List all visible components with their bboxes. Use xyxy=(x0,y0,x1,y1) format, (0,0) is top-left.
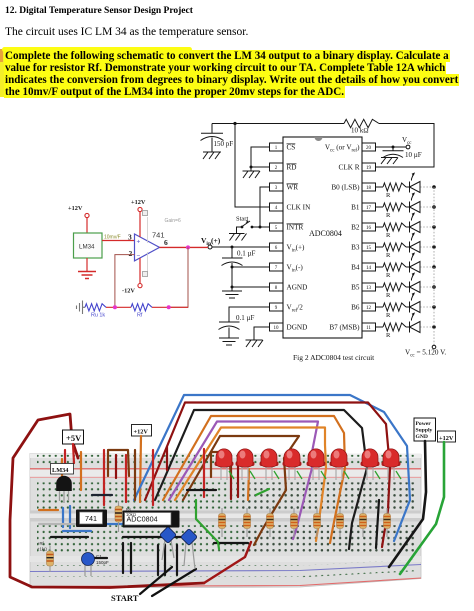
ADC0804 pin 14 B4 xyxy=(362,263,376,271)
svg-text:B7 (MSB): B7 (MSB) xyxy=(329,324,360,332)
resistor R (B5) xyxy=(383,283,406,291)
wire: green jumper xyxy=(196,500,219,549)
capacitor (blue disc) xyxy=(184,542,195,569)
svg-text:+12V: +12V xyxy=(134,429,149,436)
bottom power rail holes xyxy=(37,565,300,568)
op-amp U1 741 xyxy=(135,234,160,261)
wire: dark red jumper xyxy=(115,455,117,478)
svg-text:10 µF: 10 µF xyxy=(405,151,422,159)
node: LED bus junction xyxy=(432,325,436,329)
svg-text:DGND: DGND xyxy=(287,324,308,332)
svg-text:10mv/F: 10mv/F xyxy=(104,235,121,241)
node: LED bus junction xyxy=(432,245,436,249)
wire: black jumper xyxy=(376,500,379,548)
svg-text:10 kΩ: 10 kΩ xyxy=(351,127,369,135)
wire: orange jumper ADC to LED xyxy=(163,416,345,543)
svg-text:20: 20 xyxy=(366,146,372,151)
ADC0804 pin 9 Vref/2 xyxy=(270,303,284,311)
wire: black jumper ADC to LED xyxy=(155,410,367,549)
ADC0804 pin 13 B5 xyxy=(362,283,376,291)
ADC0804 pin 19 CLK R xyxy=(362,163,376,171)
LED D2 xyxy=(410,202,421,213)
ADC0804 pin 3 WR xyxy=(270,183,284,191)
wire: brown staple jumper xyxy=(211,452,231,477)
wire xyxy=(152,306,188,308)
wire: CS/RD to ground xyxy=(251,147,270,171)
wire: brown staple jumper xyxy=(108,450,129,476)
wire: LED supply bus xyxy=(433,187,435,345)
svg-text:R: R xyxy=(386,252,391,259)
LED 8 legs xyxy=(388,466,394,480)
svg-text:12: 12 xyxy=(366,306,372,311)
svg-text:C1: C1 xyxy=(96,554,102,559)
wire: black jumper xyxy=(157,545,159,575)
wire: orange jumper xyxy=(61,459,63,488)
sensor LM34 (TO-92) xyxy=(51,464,74,475)
wire xyxy=(106,306,131,308)
LED D8 xyxy=(410,322,421,333)
svg-text:9: 9 xyxy=(275,306,278,311)
resistor R (B2) xyxy=(383,223,406,231)
wire: black jumper xyxy=(214,542,248,544)
ADC0804 pin 16 B2 xyxy=(362,223,376,231)
LED D5 xyxy=(410,262,421,273)
svg-text:+12V: +12V xyxy=(68,205,83,212)
wire: +12V tap (orange) xyxy=(140,436,141,502)
resistor (LED 3) xyxy=(269,508,271,537)
ground (hatched) for Start switch xyxy=(229,234,247,241)
svg-text:GND: GND xyxy=(416,434,428,440)
capacitor (blue disc) xyxy=(162,540,174,560)
wire: black jumper xyxy=(164,545,166,575)
LED D3 xyxy=(410,222,421,233)
svg-text:5: 5 xyxy=(275,226,278,231)
capacitor 150 pF xyxy=(201,124,223,153)
breadboard base xyxy=(30,454,421,589)
LED 4 body xyxy=(283,462,302,467)
resistor (LED 5) xyxy=(316,508,318,537)
svg-text:2: 2 xyxy=(129,249,133,258)
svg-text:Fig 2 ADC0804 test circuit: Fig 2 ADC0804 test circuit xyxy=(293,353,375,362)
wire: purple jumper ADC to LED xyxy=(169,422,318,540)
svg-text:Vin(+): Vin(+) xyxy=(201,236,221,247)
svg-text:-12V: -12V xyxy=(122,288,135,295)
wire: pin 10 DGND xyxy=(254,327,270,340)
wire: blue jumper xyxy=(69,506,71,528)
svg-text:Ru 1k: Ru 1k xyxy=(91,313,105,319)
wire: dark red jumper ADC to LED xyxy=(145,403,390,548)
wire: dark red jumper xyxy=(230,461,232,499)
svg-text:R: R xyxy=(386,292,391,299)
svg-text:15: 15 xyxy=(366,246,372,251)
LED 7 legs xyxy=(367,466,373,480)
resistor R (B3) xyxy=(383,243,406,251)
capacitor 0.1 uF at Vref/2 xyxy=(219,322,240,338)
svg-text:10: 10 xyxy=(274,326,280,331)
wire: pin row B3 xyxy=(376,246,410,248)
svg-text:+Rf: +Rf xyxy=(37,541,44,546)
wire: +5V supply loop (dark red) xyxy=(10,414,204,588)
ground (hatched) below 150 pF xyxy=(203,152,221,159)
LED 1 legs xyxy=(221,466,227,480)
wire: Vin(+) to pin 6 xyxy=(212,246,270,248)
resistor (LED 4) xyxy=(293,508,295,537)
LED D7 xyxy=(410,302,421,313)
svg-text:13: 13 xyxy=(366,286,372,291)
capacitor C1 150pF xyxy=(85,563,91,576)
wire: red jumper xyxy=(103,450,105,505)
ADC0804 pin 6 Vin(+) xyxy=(270,243,284,251)
svg-text:150pF: 150pF xyxy=(96,560,109,565)
wire: feedback down xyxy=(169,247,188,307)
LED D6 xyxy=(410,282,421,293)
svg-text:B1: B1 xyxy=(351,204,360,212)
sensor LM34 xyxy=(74,233,103,258)
wire: black jumper xyxy=(176,545,178,575)
svg-text:Gain=6: Gain=6 xyxy=(165,218,181,224)
LED 3 body xyxy=(260,462,279,467)
resistor R (B6) xyxy=(383,303,406,311)
wire: pin row B5 xyxy=(376,286,410,288)
wire: orange jumper xyxy=(39,509,58,511)
svg-text:INTR: INTR xyxy=(287,224,304,232)
resistor R (B7) xyxy=(383,323,406,331)
ADC0804 pin 12 B6 xyxy=(362,303,376,311)
wire: top clock line from 150pF node to CLK R loop xyxy=(212,124,434,168)
svg-text:R: R xyxy=(386,192,391,199)
ADC0804 pin 5 INTR xyxy=(270,223,284,231)
wire: black START jumpers xyxy=(140,567,172,594)
svg-text:Vcc = 5.120 V.: Vcc = 5.120 V. xyxy=(405,349,446,359)
svg-text:8: 8 xyxy=(275,286,278,291)
svg-text:Vin(-): Vin(-) xyxy=(287,264,304,274)
ADC0804 pin 20 Vcc (or Vref) xyxy=(362,143,376,151)
resistor (LED 2) xyxy=(246,508,248,537)
svg-text:LM34: LM34 xyxy=(52,467,69,474)
svg-text:R: R xyxy=(386,212,391,219)
wire: dark red jumper xyxy=(237,455,239,497)
ADC0804 pin 15 B3 xyxy=(362,243,376,251)
svg-text:+12V: +12V xyxy=(131,199,146,206)
ground (hatched) for CS/RD xyxy=(243,171,261,178)
svg-text:+1kΩ: +1kΩ xyxy=(37,547,47,552)
bottom rail blue line xyxy=(30,565,421,572)
svg-text:150 pF: 150 pF xyxy=(214,140,234,148)
wire: CLK IN vertical xyxy=(235,124,270,208)
wire: black jumper xyxy=(187,489,216,491)
svg-text:1: 1 xyxy=(275,146,278,151)
wire: dark red jumper xyxy=(166,447,168,470)
svg-text:B6: B6 xyxy=(351,304,360,312)
svg-text:16: 16 xyxy=(366,226,372,231)
ground (hatched) below 10 uF xyxy=(381,158,398,165)
svg-text:LM34: LM34 xyxy=(79,244,95,251)
wire: switch to ground xyxy=(237,227,243,234)
svg-text:10kΩ: 10kΩ xyxy=(126,512,136,517)
wire: gray jumper xyxy=(39,523,76,525)
wire: orange jumper xyxy=(248,469,249,500)
wire: pin 7 xyxy=(232,266,270,268)
resistor (LED 6) xyxy=(339,508,341,537)
label +5V xyxy=(63,430,84,444)
wire: red jumper xyxy=(64,450,66,470)
svg-text:741: 741 xyxy=(152,231,165,240)
svg-text:+12V: +12V xyxy=(439,435,454,442)
svg-text:7: 7 xyxy=(275,266,278,271)
ADC0804 pin 2 RD xyxy=(270,163,284,171)
wire: green jumper xyxy=(256,489,269,495)
node: Ru/Rf junction xyxy=(113,305,117,309)
svg-text:6: 6 xyxy=(275,246,278,251)
wire: ground (black) from supply xyxy=(389,441,426,567)
node: LED bus junction xyxy=(432,225,436,229)
svg-text:B4: B4 xyxy=(351,264,360,272)
wire: blue jumper ADC to LED xyxy=(134,395,410,541)
svg-text:4: 4 xyxy=(275,206,278,211)
wire: blue jumper xyxy=(62,508,64,527)
svg-text:0.1 µF: 0.1 µF xyxy=(237,250,256,258)
svg-text:Rf: Rf xyxy=(137,313,143,319)
node: Rf/feedback junction xyxy=(167,305,171,309)
node: LED bus junction xyxy=(432,265,436,269)
wire: black jumper xyxy=(51,536,88,538)
ground (LM34) xyxy=(78,272,96,279)
svg-text:0.1 µF: 0.1 µF xyxy=(236,314,255,322)
resistor 10 kOhm xyxy=(344,119,379,127)
svg-text:17: 17 xyxy=(366,206,372,211)
wire: op-amp output to Vin(+) xyxy=(160,246,209,248)
svg-text:Vref/2: Vref/2 xyxy=(287,304,304,314)
node: LED bus junction xyxy=(432,305,436,309)
node: LED bus junction xyxy=(432,185,436,189)
wire: pin row B1 xyxy=(376,206,410,208)
node: LED bus junction xyxy=(432,285,436,289)
svg-text:+: + xyxy=(137,239,141,246)
svg-text:R: R xyxy=(386,232,391,239)
wire: pin row B6 xyxy=(376,306,410,308)
resistor R (B0) xyxy=(383,183,406,191)
svg-text:14: 14 xyxy=(366,266,372,271)
wire: pin row B0 xyxy=(376,186,410,188)
LED D4 xyxy=(410,242,421,253)
label Power Supply GND xyxy=(414,418,436,441)
node: LED bus junction xyxy=(432,205,436,209)
wire xyxy=(86,258,88,271)
svg-text:2: 2 xyxy=(275,166,278,171)
wire: black jumper xyxy=(122,543,124,573)
wire: blue jumper xyxy=(63,530,91,532)
LED 6 legs xyxy=(336,466,342,480)
svg-text:741: 741 xyxy=(85,514,97,523)
svg-text:AGND: AGND xyxy=(287,284,308,292)
wire: black jumper xyxy=(92,494,112,496)
ground (earth) below Vref/2 cap xyxy=(219,338,239,345)
svg-text:R: R xyxy=(386,272,391,279)
LED 5 legs xyxy=(313,466,319,480)
svg-text:Start: Start xyxy=(236,216,248,223)
svg-text:+5V: +5V xyxy=(66,433,82,443)
svg-text:CLK IN: CLK IN xyxy=(287,204,312,212)
resistor R (B4) xyxy=(383,263,406,271)
node Vcc terminal xyxy=(406,145,410,149)
wire: red jumper to START row xyxy=(204,542,251,583)
ground (earth) below 0.1uF xyxy=(222,291,242,298)
power -12V op-amp xyxy=(139,258,141,284)
node: junction top wire / CLK IN xyxy=(233,122,236,125)
label +12V (right) xyxy=(438,431,456,442)
LED 7 body xyxy=(361,462,380,467)
IC ADC0804 xyxy=(123,511,180,528)
IC 741 xyxy=(76,510,107,528)
resistor (LED 1) xyxy=(221,508,223,537)
svg-text:11: 11 xyxy=(366,326,371,331)
svg-text:Vcc: Vcc xyxy=(402,136,412,146)
LED 2 legs xyxy=(242,466,248,480)
resistor near left edge xyxy=(49,546,51,572)
ADC0804 pin 11 B7 (MSB) xyxy=(362,323,376,331)
wire: +5V tap xyxy=(73,444,74,463)
wire: pin row B7 xyxy=(376,326,410,328)
lower divider strip xyxy=(30,556,421,562)
wire: pin 9 Vref/2 xyxy=(229,307,270,322)
ADC0804 pin 7 Vin(-) xyxy=(270,263,284,271)
LED 8 body xyxy=(382,462,401,467)
ground (sideways, Ru) xyxy=(77,301,86,315)
wire: orange jumper xyxy=(80,452,82,490)
resistor Rs near 741 xyxy=(118,501,120,532)
capacitor 10 uF xyxy=(383,147,404,151)
svg-text:B2: B2 xyxy=(351,224,360,232)
wire: pin row B4 xyxy=(376,266,410,268)
svg-text:R: R xyxy=(386,312,391,319)
svg-text:WR: WR xyxy=(287,184,299,192)
svg-text:ADC0804: ADC0804 xyxy=(309,229,342,238)
wire: pin row B2 xyxy=(376,226,410,228)
ADC0804 pin 1 CS xyxy=(270,143,284,151)
svg-text:START: START xyxy=(111,593,139,603)
svg-text:CS: CS xyxy=(287,144,296,152)
ADC0804 pin 18 B0 (LSB) xyxy=(362,183,376,191)
resistor (LED 7) xyxy=(362,508,364,537)
svg-text:B5: B5 xyxy=(351,284,360,292)
main grid top half xyxy=(37,482,417,510)
ADC0804 pin 8 AGND xyxy=(270,283,284,291)
svg-text:Vin(+): Vin(+) xyxy=(287,244,306,254)
wire: brown jumper ADC to LED xyxy=(183,436,299,545)
ground (hatched) for DGND xyxy=(246,340,264,347)
svg-text:B3: B3 xyxy=(351,244,360,252)
top power rail holes xyxy=(37,455,414,458)
svg-text:Power: Power xyxy=(416,421,432,427)
svg-text:18: 18 xyxy=(366,186,372,191)
wire: black jumper xyxy=(88,557,107,559)
LED 5 body xyxy=(307,462,326,467)
svg-text:6: 6 xyxy=(164,238,168,247)
resistor (LED 8) xyxy=(386,508,388,537)
wire: red jumper xyxy=(203,449,205,497)
node Vin(+) input terminal xyxy=(208,245,212,249)
wire: inverting input xyxy=(115,255,135,308)
switch Start xyxy=(251,226,254,229)
svg-text:CLK R: CLK R xyxy=(339,164,360,172)
svg-text:19: 19 xyxy=(366,166,372,171)
resistor Ru 1k xyxy=(85,304,106,311)
resistor Rf xyxy=(131,304,152,311)
center groove xyxy=(30,511,421,522)
main grid bottom half xyxy=(37,525,417,553)
wire xyxy=(86,218,88,233)
capacitor 0.1 uF at Vin(+) xyxy=(222,247,243,291)
wire: +12V (green) from supply xyxy=(400,442,444,574)
node: output junction xyxy=(186,245,190,249)
resistor R (B1) xyxy=(383,203,406,211)
LED 6 body xyxy=(330,462,349,467)
svg-text:Supply: Supply xyxy=(416,428,433,434)
svg-text:Vcc (or Vref): Vcc (or Vref) xyxy=(325,144,360,154)
wire: pin 8 AGND xyxy=(232,286,270,288)
wire: red jumper xyxy=(125,455,127,502)
svg-text:R: R xyxy=(386,332,391,339)
ADC0804 pin 17 B1 xyxy=(362,203,376,211)
wire: brown jumper xyxy=(134,450,136,500)
IC U1 ADC0804 body xyxy=(283,137,362,338)
svg-text:3: 3 xyxy=(128,233,132,242)
wire: black jumper xyxy=(123,536,190,538)
bottom rail red line xyxy=(30,578,421,587)
label +12V (left) xyxy=(132,425,152,437)
svg-text:B0 (LSB): B0 (LSB) xyxy=(331,184,360,192)
LED 4 legs xyxy=(289,466,295,480)
wire: blue jumper xyxy=(101,523,132,525)
LED 2 body xyxy=(236,462,255,467)
wire: black jumper xyxy=(130,543,132,573)
ADC0804 pin 10 DGND xyxy=(270,323,284,331)
LED 1 body xyxy=(215,462,234,467)
wire: WR to INTR xyxy=(252,187,270,227)
svg-text:RD: RD xyxy=(287,164,297,172)
wire: orange jumper ADC to LED xyxy=(175,428,326,542)
LED 3 legs xyxy=(266,466,272,480)
top rail red line xyxy=(30,468,421,470)
wire: LM34 output to op-amp +in xyxy=(102,240,135,242)
ADC0804 pin 4 CLK IN xyxy=(270,203,284,211)
wire: red jumper xyxy=(152,450,154,505)
LED D1 xyxy=(410,182,421,193)
wire: pin 20 Vcc xyxy=(376,146,407,148)
svg-text:3: 3 xyxy=(275,186,278,191)
